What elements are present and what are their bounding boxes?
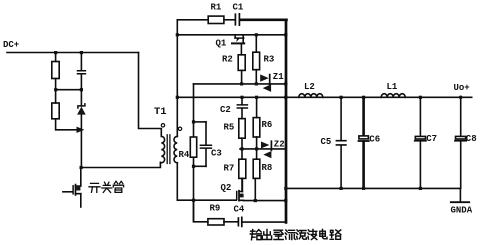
wire R2 bottom lead <box>241 70 243 84</box>
svg-text:Q2: Q2 <box>221 183 232 193</box>
wire R5 bottom lead <box>241 138 243 149</box>
junction Q1 line right end <box>284 33 287 36</box>
svg-text:Q1: Q1 <box>216 39 227 49</box>
junction R3 top <box>255 33 258 36</box>
resistor R2 <box>238 55 245 71</box>
wire C1 to right rail (thick) <box>240 18 286 21</box>
junction Z1 line at right rail <box>284 82 287 85</box>
capacitor C8 electrolytic <box>456 136 466 139</box>
wire R7 leads <box>241 149 243 192</box>
整 <box>274 230 283 239</box>
capacitor C3 <box>205 122 207 166</box>
wire C2 top lead <box>241 97 243 104</box>
wire Q1 drain line <box>177 34 285 36</box>
junction left rail at output rail <box>176 96 179 99</box>
路 <box>330 230 341 239</box>
wire secondary hot rail (left rail) <box>176 20 178 200</box>
junction R4C3 top <box>192 120 195 123</box>
wire primary bottom return <box>81 162 160 167</box>
wire capacitor to mid node <box>80 74 82 90</box>
wire DC+ down to transformer primary <box>139 53 162 129</box>
wire R6 bottom lead <box>256 137 258 149</box>
junction gnd rail at bus <box>284 187 287 190</box>
arrowhead into switch drain line <box>77 127 85 133</box>
capacitor C6 electrolytic <box>359 136 369 139</box>
junction drain node <box>80 166 83 169</box>
wire C5 bottom lead <box>340 145 342 188</box>
caption 输出整流滤波电路 <box>250 229 340 240</box>
ground GNDA bar <box>451 201 469 203</box>
transistor switch (开关管 MOSFET) <box>63 185 81 207</box>
junction line B on Z2 line <box>255 147 258 150</box>
resistor (lower left, unlabeled) <box>52 103 59 119</box>
junction mid left <box>54 88 57 91</box>
transistor Q1 <box>232 35 244 55</box>
输 <box>250 230 261 240</box>
wire switch drain lead <box>80 168 82 186</box>
流 <box>285 230 295 240</box>
svg-text:Z1: Z1 <box>273 72 284 82</box>
svg-text:R7: R7 <box>224 164 235 174</box>
svg-text:L1: L1 <box>387 82 398 92</box>
svg-text:C8: C8 <box>466 134 477 144</box>
label 开关管 <box>89 181 124 192</box>
wire R4C3 top link <box>194 121 207 123</box>
wire vertical R4 branch line <box>193 84 195 222</box>
wire capacitor branch upper lead <box>80 53 82 71</box>
wire C7 top lead <box>419 97 421 136</box>
wire second resistor lower lead <box>55 119 57 130</box>
wire right thick bus <box>285 20 288 223</box>
出 <box>262 230 271 240</box>
wire C8 top lead <box>460 97 462 136</box>
capacitor C1 <box>235 14 239 25</box>
svg-text:T1: T1 <box>154 106 167 118</box>
wire DC+ top rail <box>7 52 139 54</box>
svg-text:L2: L2 <box>304 82 315 92</box>
junction gate line at R4 branch <box>192 199 195 202</box>
junction rail at thick bus <box>284 96 287 99</box>
transformer primary winding <box>161 129 164 163</box>
wire R3 top lead <box>255 35 257 52</box>
junction C7 bottom <box>419 187 422 190</box>
wire R8 leads <box>255 149 256 201</box>
wire second resistor upper lead <box>55 90 57 103</box>
wire R4C3 bottom link <box>194 165 207 167</box>
wire R3 bottom lead <box>255 70 257 84</box>
wire R6 top lead <box>256 97 258 117</box>
resistor R8 <box>253 159 260 178</box>
管 <box>113 181 123 192</box>
junction C5 top <box>340 96 343 99</box>
resistor R1 <box>208 16 224 23</box>
junction C2 top <box>240 96 243 99</box>
wire C2 to R5 <box>241 108 243 118</box>
junction C6 top <box>362 96 365 99</box>
wire Q2 gate line from secondary <box>177 199 236 201</box>
电 <box>320 229 327 239</box>
junction line A on Z2 line <box>240 147 243 150</box>
junction left rail at Q1 line <box>176 33 179 36</box>
svg-text:R1: R1 <box>211 3 222 13</box>
capacitor C2 <box>237 105 247 108</box>
junction C7 top <box>419 96 422 99</box>
svg-text:C2: C2 <box>220 105 231 115</box>
zener Z2 <box>261 141 271 158</box>
junction on DC+ rail at C branch <box>80 51 83 54</box>
开 <box>89 183 100 192</box>
svg-text:C6: C6 <box>369 135 380 145</box>
wire C5 top lead <box>340 97 342 140</box>
transistor Q2 <box>237 178 244 200</box>
svg-text:GNDA: GNDA <box>451 206 473 216</box>
svg-text:R3: R3 <box>264 55 275 65</box>
junction R6 top <box>255 96 258 99</box>
capacitor (left branch, unlabeled) <box>78 71 86 74</box>
zener Z1 <box>260 74 271 92</box>
resistor R3 <box>253 52 260 69</box>
wire snubber top left <box>177 19 208 21</box>
zener diode (left clamp) <box>78 104 85 108</box>
svg-text:R9: R9 <box>210 204 221 214</box>
junction on DC+ rail at R branch <box>54 51 57 54</box>
wire zener upper lead <box>80 90 82 106</box>
wire Z2 node line <box>240 148 286 150</box>
junction C5 bottom <box>340 187 343 190</box>
wire C7 bottom lead <box>419 141 421 188</box>
svg-text:C7: C7 <box>426 134 437 144</box>
resistor R7 <box>239 159 246 178</box>
wire output ground rail <box>286 187 460 189</box>
transformer primary phase dot <box>161 124 164 127</box>
inductor L1 <box>381 94 405 98</box>
wire C6 bottom lead (thick) <box>362 142 365 189</box>
junction R8 bottom <box>254 199 257 202</box>
svg-text:R2: R2 <box>222 55 233 65</box>
wire output top rail <box>177 96 471 98</box>
resistor (upper left, unlabeled) <box>52 62 59 79</box>
wire C4 to bus bottom <box>242 221 286 222</box>
junction R3 bottom <box>255 82 258 85</box>
wire bottom connector with arrow <box>56 129 78 131</box>
wire Z1 node line <box>194 83 286 85</box>
wire R9 to C4 <box>224 221 238 223</box>
wire Q2 source line to bus <box>244 200 286 202</box>
滤 <box>297 230 307 239</box>
波 <box>308 230 317 240</box>
junction R4C3 bottom <box>192 165 195 168</box>
svg-text:R6: R6 <box>262 120 273 130</box>
关 <box>102 182 112 192</box>
wire zener lower lead down to drain node <box>80 115 82 168</box>
svg-text:Uo+: Uo+ <box>454 83 470 93</box>
junction C6 bottom <box>362 187 365 190</box>
junction mid right <box>80 88 83 91</box>
svg-text:Z2: Z2 <box>274 140 285 150</box>
resistor R5 <box>239 119 245 139</box>
svg-text:R5: R5 <box>224 123 235 133</box>
capacitor C5 <box>336 141 346 145</box>
resistor R9 <box>208 219 224 225</box>
wire R branch upper lead <box>55 53 57 62</box>
wire GNDA drop <box>459 188 461 201</box>
svg-text:R8: R8 <box>262 163 273 173</box>
svg-text:R4: R4 <box>179 150 190 160</box>
wire mid connector <box>56 89 82 91</box>
capacitor C4 <box>238 217 241 226</box>
transformer core <box>167 135 170 164</box>
svg-text:C1: C1 <box>233 3 244 13</box>
svg-text:DC+: DC+ <box>3 40 19 50</box>
wire R branch to mid node <box>55 79 57 90</box>
junction R2 bottom <box>240 82 243 85</box>
resistor R4 <box>190 137 196 157</box>
inductor L2 <box>299 94 323 98</box>
svg-text:C4: C4 <box>234 205 245 215</box>
svg-text:C3: C3 <box>211 149 222 159</box>
capacitor C7 electrolytic <box>415 136 425 139</box>
junction output node Uo <box>459 96 463 100</box>
wire C6 top lead (thick) <box>362 97 365 136</box>
transformer secondary phase dot <box>178 127 181 130</box>
resistor R6 <box>253 118 260 137</box>
wire R1 to C1 <box>224 19 235 21</box>
svg-text:C5: C5 <box>321 137 332 147</box>
wire C8 bottom lead <box>460 141 462 188</box>
junction source line at bus <box>284 199 287 202</box>
wire R9C4 branch down <box>194 200 208 222</box>
transformer secondary winding <box>174 136 177 162</box>
